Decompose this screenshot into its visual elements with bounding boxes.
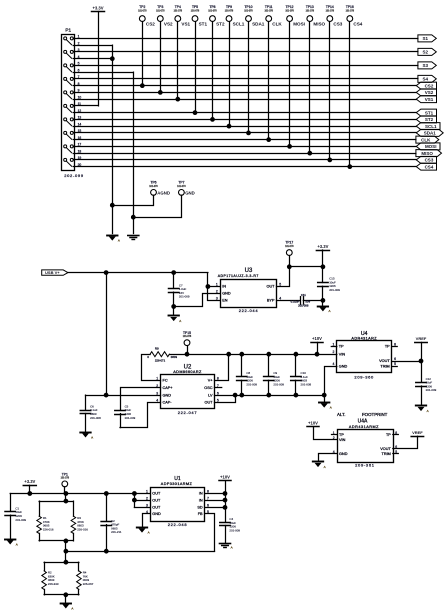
svg-text:+3.3V: +3.3V (92, 5, 103, 10)
svg-text:201-009: 201-009 (273, 382, 284, 386)
wire pin5 (73, 65, 418, 67)
junction (233, 393, 237, 397)
wire pin19 (73, 159, 416, 161)
svg-text:TP9: TP9 (226, 5, 232, 9)
svg-text:201-008: 201-008 (301, 382, 312, 386)
svg-text:201-006: 201-006 (298, 304, 309, 308)
label ADR431ARMZ (349, 425, 379, 429)
wire GND pin (174, 294, 221, 307)
test point TP3 (156, 5, 173, 94)
wire (173, 307, 175, 316)
wire pin5 stub (393, 453, 399, 455)
svg-text:222-048: 222-048 (168, 522, 188, 527)
svg-text:OSC: OSC (204, 386, 212, 390)
wire (65, 551, 67, 562)
svg-text:101-078: 101-078 (326, 11, 335, 13)
svg-text:ADP171AUJZ-3.3-R7: ADP171AUJZ-3.3-R7 (218, 274, 259, 278)
svg-text:TP3: TP3 (157, 5, 163, 9)
svg-text:A: A (179, 319, 181, 323)
svg-text:226-016: 226-016 (43, 528, 54, 532)
power VREF (415, 336, 427, 342)
svg-text:+10V: +10V (220, 475, 230, 480)
wire VOUT (392, 361, 421, 363)
wire OUT (215, 395, 236, 402)
junction (104, 492, 108, 496)
label 202-099 (64, 173, 84, 178)
junction (185, 352, 189, 356)
svg-text:SDA1: SDA1 (424, 131, 437, 136)
net flag SCL1 (416, 123, 440, 130)
net flag S3 (418, 62, 436, 69)
wire (134, 507, 150, 509)
junction (294, 393, 298, 397)
svg-text:222-044: 222-044 (239, 308, 259, 313)
svg-text:101-078: 101-078 (264, 11, 273, 13)
svg-text:VOUT: VOUT (379, 359, 390, 363)
wire AGND drop (112, 45, 114, 233)
wire FC (142, 355, 161, 381)
regulator U3 (216, 268, 281, 313)
svg-text:201-009: 201-009 (15, 518, 26, 522)
svg-text:4: 4 (333, 362, 335, 366)
svg-text:R9: R9 (155, 346, 159, 350)
svg-text:OUT: OUT (152, 498, 161, 502)
wire (322, 300, 324, 305)
junction (64, 549, 68, 553)
svg-text:BYP: BYP (267, 299, 275, 303)
junction (223, 506, 227, 510)
junction (321, 299, 325, 303)
wire V+ (215, 354, 229, 380)
svg-text:+3.3V: +3.3V (317, 244, 328, 249)
test point TP13 (306, 5, 326, 155)
svg-text:CS4: CS4 (353, 22, 362, 27)
svg-text:CS4: CS4 (425, 164, 434, 169)
svg-text:101-078: 101-078 (208, 11, 217, 13)
svg-text:CAP-: CAP- (163, 401, 173, 405)
svg-text:SCL1: SCL1 (233, 22, 245, 27)
svg-text:IN: IN (199, 498, 203, 502)
svg-text:MOSI: MOSI (425, 144, 437, 149)
wire pin4 (319, 454, 338, 461)
ground GND (128, 236, 139, 240)
wire (98, 12, 100, 106)
svg-text:VOUT: VOUT (380, 447, 391, 451)
svg-text:CS3: CS3 (425, 158, 434, 163)
wire pin10 (73, 99, 416, 101)
junction (294, 352, 298, 356)
svg-text:SD: SD (197, 506, 203, 510)
svg-text:2: 2 (216, 290, 218, 294)
svg-text:TP6: TP6 (150, 181, 156, 185)
svg-text:FC: FC (163, 379, 168, 383)
svg-text:6: 6 (217, 391, 219, 395)
resistor R2 R4 (42, 560, 94, 596)
net flag SDA1 (416, 129, 443, 136)
capacitor C6 (80, 395, 101, 431)
svg-text:226-016: 226-016 (77, 528, 88, 532)
svg-text:OUT: OUT (204, 401, 213, 405)
wire pin14 (73, 126, 416, 128)
svg-text:101-078: 101-078 (285, 246, 294, 248)
svg-text:GND: GND (339, 452, 348, 456)
junction (223, 492, 227, 496)
svg-text:TP7: TP7 (178, 181, 184, 185)
svg-text:101-078: 101-078 (138, 11, 147, 13)
wire FB (205, 514, 215, 552)
svg-text:TP12: TP12 (286, 5, 294, 9)
ground AGND (137, 528, 150, 535)
power VREF (411, 430, 423, 437)
svg-text:226-067: 226-067 (83, 582, 94, 586)
power +3.3V (316, 244, 329, 251)
net flag CS2 (416, 82, 436, 89)
svg-text:TP14: TP14 (326, 5, 334, 9)
capacitor C1 (5, 494, 26, 539)
svg-text:+3.3V: +3.3V (24, 479, 35, 484)
junction (321, 265, 325, 269)
wire pin7 (73, 78, 418, 80)
wire (134, 500, 150, 502)
wire (314, 427, 338, 440)
net flag VS2 (416, 89, 436, 96)
svg-text:ADR431ARZ: ADR431ARZ (351, 337, 377, 341)
wire U4 GND (325, 367, 337, 402)
net flag MOSI (416, 143, 440, 150)
svg-text:VS1: VS1 (181, 22, 190, 27)
svg-text:6: 6 (394, 357, 396, 361)
net flag ST1 (416, 109, 436, 116)
wire (421, 342, 423, 382)
svg-text:IN: IN (222, 285, 226, 289)
junction (223, 498, 227, 502)
svg-text:S3: S3 (422, 63, 428, 68)
svg-text:GND: GND (185, 190, 195, 195)
svg-text:101-078: 101-078 (61, 478, 70, 480)
junction (172, 305, 176, 309)
junction (240, 393, 244, 397)
test point TP14 (326, 5, 343, 162)
svg-text:A: A (16, 542, 18, 546)
svg-text:A: A (148, 531, 150, 535)
svg-text:P1: P1 (65, 27, 71, 32)
svg-text:MOSI: MOSI (293, 22, 305, 27)
svg-text:GND: GND (222, 292, 231, 296)
svg-text:101-078: 101-078 (149, 186, 158, 188)
wire pin12 (73, 112, 416, 114)
wire rail +10V (169, 354, 336, 356)
junction (206, 285, 210, 289)
svg-text:101-078: 101-078 (174, 11, 183, 13)
wire VOUT (393, 436, 418, 448)
svg-text:GND: GND (152, 512, 161, 516)
svg-text:AGND: AGND (157, 190, 170, 195)
svg-text:101-078: 101-078 (156, 11, 165, 13)
wire pin2 (73, 45, 112, 47)
label U4A (358, 419, 368, 425)
svg-text:201-009: 201-009 (229, 528, 240, 532)
svg-text:VS2: VS2 (425, 90, 434, 95)
wire (225, 481, 227, 522)
junction (133, 498, 137, 502)
svg-text:226-343: 226-343 (48, 582, 59, 586)
svg-text:OUT: OUT (152, 492, 161, 496)
capacitor C4 (220, 517, 241, 543)
svg-text:VS2: VS2 (164, 22, 173, 27)
junction (322, 393, 326, 397)
svg-text:5: 5 (394, 362, 396, 366)
svg-text:2: 2 (333, 350, 335, 354)
svg-text:ADP3301ARMZ: ADP3301ARMZ (161, 482, 193, 486)
capacitor C5 (115, 404, 136, 427)
svg-text:201-009: 201-009 (179, 295, 190, 299)
test point TP15 (183, 331, 192, 354)
net flag USB V+ (42, 270, 68, 275)
svg-text:101-078: 101-078 (225, 11, 234, 13)
svg-text:TP5: TP5 (192, 5, 198, 9)
wire pin15 (73, 132, 416, 134)
svg-text:101-078: 101-078 (306, 11, 315, 13)
wire pin8 stub (392, 346, 398, 348)
net flag S1 (418, 35, 436, 42)
connector P1 (62, 27, 82, 170)
power +3.3V (92, 5, 105, 11)
wire rail (289, 266, 323, 268)
capacitor C8 (237, 354, 258, 395)
svg-text:3: 3 (156, 391, 158, 395)
svg-text:2: 2 (146, 496, 148, 500)
wire pin20 (73, 166, 416, 168)
svg-text:3: 3 (216, 297, 218, 301)
svg-text:TP16: TP16 (346, 5, 354, 9)
test point TP10 (244, 5, 265, 135)
net flag CS3 (416, 156, 436, 163)
svg-text:IN: IN (199, 492, 203, 496)
svg-text:SDA1: SDA1 (252, 22, 265, 27)
ground AGND (313, 462, 326, 469)
ground GND (220, 544, 233, 550)
svg-text:A: A (91, 435, 93, 439)
svg-text:ST1: ST1 (425, 110, 434, 115)
ground AGND (318, 307, 331, 314)
wire pin1 (73, 38, 418, 40)
svg-text:2: 2 (78, 41, 80, 45)
label ALT. FOOTPRINT (337, 412, 388, 417)
reference U4 (333, 331, 397, 379)
test point TP4 (174, 5, 191, 101)
svg-text:LV: LV (208, 393, 213, 397)
svg-text:209-360: 209-360 (354, 374, 374, 379)
svg-text:0603: 0603 (171, 355, 178, 359)
svg-text:VREF: VREF (416, 336, 427, 341)
svg-text:MISO: MISO (313, 22, 325, 27)
wire (317, 342, 319, 354)
svg-text:101-078: 101-078 (346, 11, 355, 13)
wire USB rail (68, 272, 208, 274)
svg-text:A: A (330, 406, 332, 410)
junction (267, 393, 271, 397)
wire pin4 (73, 58, 112, 60)
net flag S4 (418, 75, 436, 82)
ground AGND (416, 406, 429, 413)
svg-text:1: 1 (146, 490, 148, 494)
svg-text:TP: TP (339, 345, 344, 349)
svg-text:V+: V+ (208, 379, 214, 383)
ground AGND (61, 604, 74, 611)
wire pin16 (73, 139, 416, 141)
ground AGND (319, 403, 332, 410)
svg-text:ST1: ST1 (199, 22, 208, 27)
resistor R1 R3 (37, 499, 88, 543)
ground AGND (5, 540, 18, 547)
svg-text:VREF: VREF (412, 430, 423, 435)
capacitor C11 (277, 293, 323, 308)
svg-text:TP13: TP13 (306, 5, 314, 9)
junction (104, 549, 108, 553)
svg-text:+10V: +10V (312, 336, 322, 341)
wire (29, 485, 31, 493)
svg-text:EN: EN (222, 299, 228, 303)
regulator U1 (146, 476, 209, 527)
inverter U2 (156, 365, 219, 416)
wire pin8 stub (393, 434, 399, 436)
power +3.3V (23, 479, 36, 485)
wire (65, 595, 67, 603)
test point TP9 (225, 5, 245, 128)
wire pin5 stub (392, 366, 398, 368)
svg-text:10: 10 (78, 95, 82, 99)
svg-text:ALT.: ALT. (337, 412, 345, 417)
svg-text:VIN: VIN (339, 352, 346, 356)
wire CAP+ (121, 388, 161, 410)
svg-text:A: A (231, 546, 233, 550)
wire IN/EN (208, 273, 221, 301)
wire (205, 493, 225, 495)
svg-text:101-078: 101-078 (183, 336, 192, 338)
wire pin6 (73, 72, 133, 74)
wire GND drop (133, 72, 135, 233)
junction (240, 352, 244, 356)
wire (205, 500, 225, 502)
junction (133, 492, 137, 496)
power +10V (307, 420, 319, 426)
svg-text:TP4: TP4 (175, 5, 181, 9)
svg-text:201-008: 201-008 (90, 416, 101, 420)
svg-text:201-009: 201-009 (246, 382, 257, 386)
svg-text:CLK: CLK (272, 22, 282, 27)
test point TP11 (264, 5, 282, 141)
svg-text:1: 1 (216, 283, 218, 287)
svg-text:TP: TP (386, 433, 391, 437)
junction (64, 492, 68, 496)
net flag ST2 (416, 116, 436, 123)
wire (65, 494, 67, 502)
test point TP6 (110, 181, 170, 208)
svg-text:TP10: TP10 (245, 5, 253, 9)
net flag MISO (416, 150, 442, 157)
wire (65, 541, 67, 551)
svg-text:S2: S2 (422, 50, 428, 55)
junction (172, 271, 176, 275)
capacitor C9 (264, 354, 285, 395)
junction (287, 265, 291, 269)
wire pin3 (73, 51, 418, 53)
wire (205, 507, 225, 509)
svg-text:S1: S1 (422, 36, 428, 41)
svg-text:C11: C11 (301, 293, 306, 297)
wire pin18 (73, 153, 416, 155)
ground AGND (80, 433, 93, 440)
svg-text:GND: GND (339, 364, 348, 368)
svg-text:TP11: TP11 (265, 5, 273, 9)
wire OUT (277, 267, 290, 287)
wire CAP- (120, 403, 161, 428)
svg-text:A: A (427, 409, 429, 413)
test point TP12 (285, 5, 305, 148)
test point TP16 (346, 5, 363, 168)
svg-text:ADM8660ARZ: ADM8660ARZ (173, 370, 202, 374)
junction (104, 271, 108, 275)
svg-text:CS2: CS2 (425, 83, 434, 88)
junction (227, 352, 231, 356)
svg-text:201-009: 201-009 (329, 288, 340, 292)
svg-text:CS2: CS2 (146, 22, 155, 27)
junction (315, 352, 319, 356)
svg-text:TRIM: TRIM (382, 452, 391, 456)
svg-text:TP: TP (385, 345, 390, 349)
wire rail (10, 493, 150, 495)
wire pin9 (73, 92, 416, 94)
net flag S2 (418, 48, 436, 55)
net flag CS4 (416, 163, 436, 170)
wire USB drop (106, 273, 108, 396)
svg-text:222-047: 222-047 (178, 410, 198, 415)
ground AGND (107, 236, 120, 243)
test point TP5 (191, 5, 208, 114)
svg-text:S4: S4 (422, 77, 428, 82)
resistor R9 (147, 346, 177, 362)
svg-text:A: A (328, 309, 330, 313)
power +10V (219, 475, 231, 481)
junction (110, 57, 114, 61)
svg-text:GND: GND (163, 393, 172, 397)
svg-text:TP8: TP8 (209, 5, 215, 9)
svg-text:ADR431ARMZ: ADR431ARMZ (349, 425, 379, 429)
svg-text:TRIM: TRIM (380, 364, 389, 368)
svg-text:7: 7 (207, 496, 209, 500)
svg-text:TP2: TP2 (139, 5, 145, 9)
svg-text:14: 14 (78, 122, 82, 126)
wire pin8 (73, 85, 416, 87)
test point TP2 (138, 5, 155, 87)
svg-text:OUT: OUT (266, 285, 275, 289)
wire (322, 250, 324, 267)
svg-text:TP15: TP15 (183, 331, 191, 335)
capacitor C10 (291, 354, 312, 395)
test point TP17 (285, 241, 294, 267)
wire OSC stub (215, 387, 222, 389)
wire pin1 stub (332, 434, 338, 436)
svg-text:SCL1: SCL1 (425, 124, 437, 129)
svg-text:A: A (324, 465, 326, 469)
svg-text:ST2: ST2 (425, 117, 434, 122)
wire pin11 (73, 105, 98, 107)
svg-text:101-078: 101-078 (285, 11, 294, 13)
wire FB rail (66, 551, 215, 553)
svg-text:VS1: VS1 (425, 97, 434, 102)
svg-text:ST2: ST2 (216, 22, 225, 27)
svg-text:U4A: U4A (358, 419, 368, 425)
